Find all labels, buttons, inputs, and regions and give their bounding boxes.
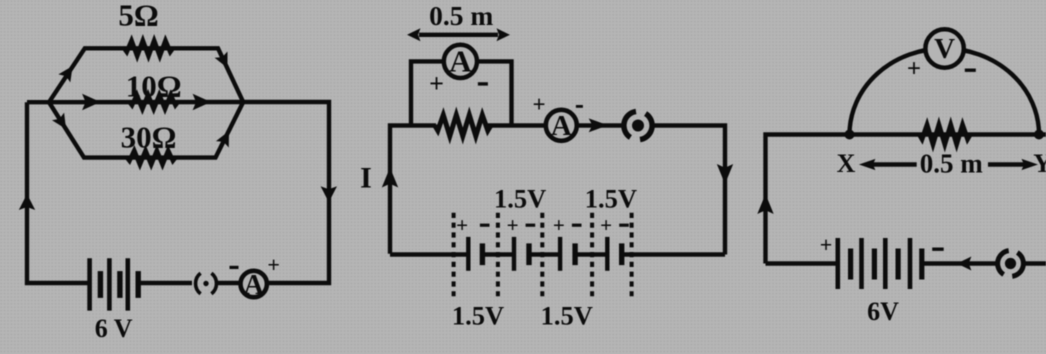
svg-text:1.5V: 1.5V	[585, 184, 637, 214]
svg-text:6 V: 6 V	[95, 314, 133, 343]
svg-text:+: +	[429, 69, 444, 98]
svg-text:V: V	[934, 33, 955, 65]
svg-text:+: +	[267, 252, 280, 277]
svg-text:A: A	[449, 44, 472, 79]
svg-text:Y: Y	[1033, 149, 1046, 178]
svg-text:+: +	[553, 213, 565, 237]
svg-text:A: A	[551, 110, 572, 142]
svg-text:A: A	[244, 270, 265, 301]
svg-text:0.5 m: 0.5 m	[920, 148, 984, 178]
svg-text:6V: 6V	[867, 297, 899, 326]
svg-text:10Ω: 10Ω	[126, 69, 182, 104]
svg-text:+: +	[600, 213, 612, 237]
svg-text:+: +	[820, 232, 833, 257]
svg-text:30Ω: 30Ω	[121, 120, 177, 155]
svg-text:+: +	[507, 213, 519, 237]
svg-text:5Ω: 5Ω	[118, 0, 158, 33]
svg-text:X: X	[837, 149, 856, 178]
svg-text:0.5 m: 0.5 m	[429, 0, 493, 31]
svg-text:1.5V: 1.5V	[452, 301, 504, 331]
svg-text:I: I	[360, 162, 372, 195]
svg-text:1.5V: 1.5V	[541, 301, 593, 331]
svg-text:1.5V: 1.5V	[494, 184, 546, 214]
svg-text:+: +	[533, 92, 546, 117]
svg-text:+: +	[907, 56, 921, 83]
svg-text:+: +	[456, 213, 468, 237]
